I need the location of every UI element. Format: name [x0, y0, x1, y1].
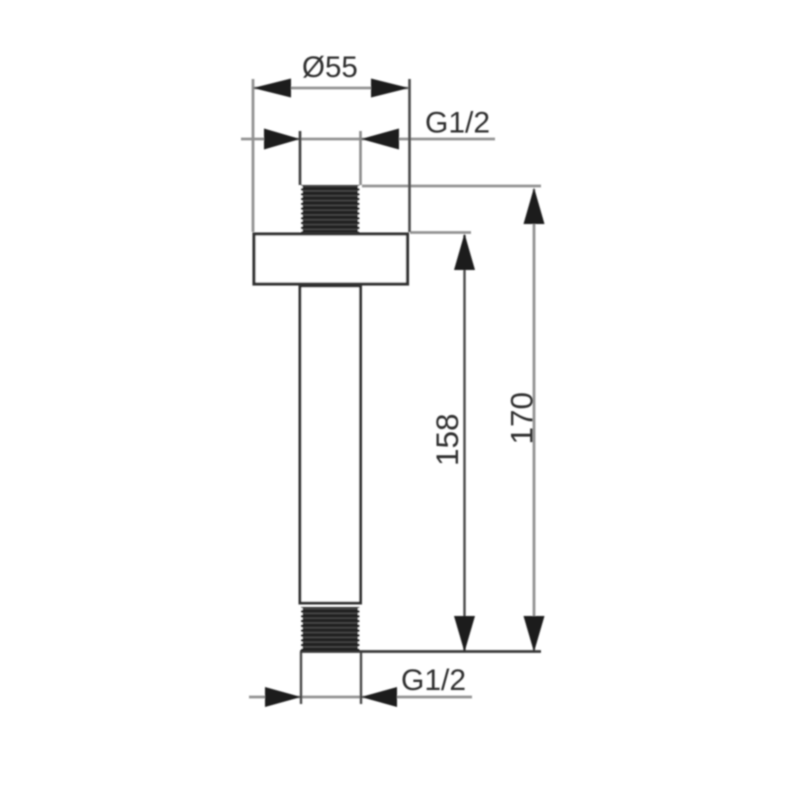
svg-text:G1/2: G1/2 [425, 107, 490, 140]
svg-text:G1/2: G1/2 [401, 664, 466, 697]
svg-text:Ø55: Ø55 [302, 51, 358, 84]
svg-text:158: 158 [429, 413, 465, 466]
svg-text:170: 170 [504, 392, 540, 445]
